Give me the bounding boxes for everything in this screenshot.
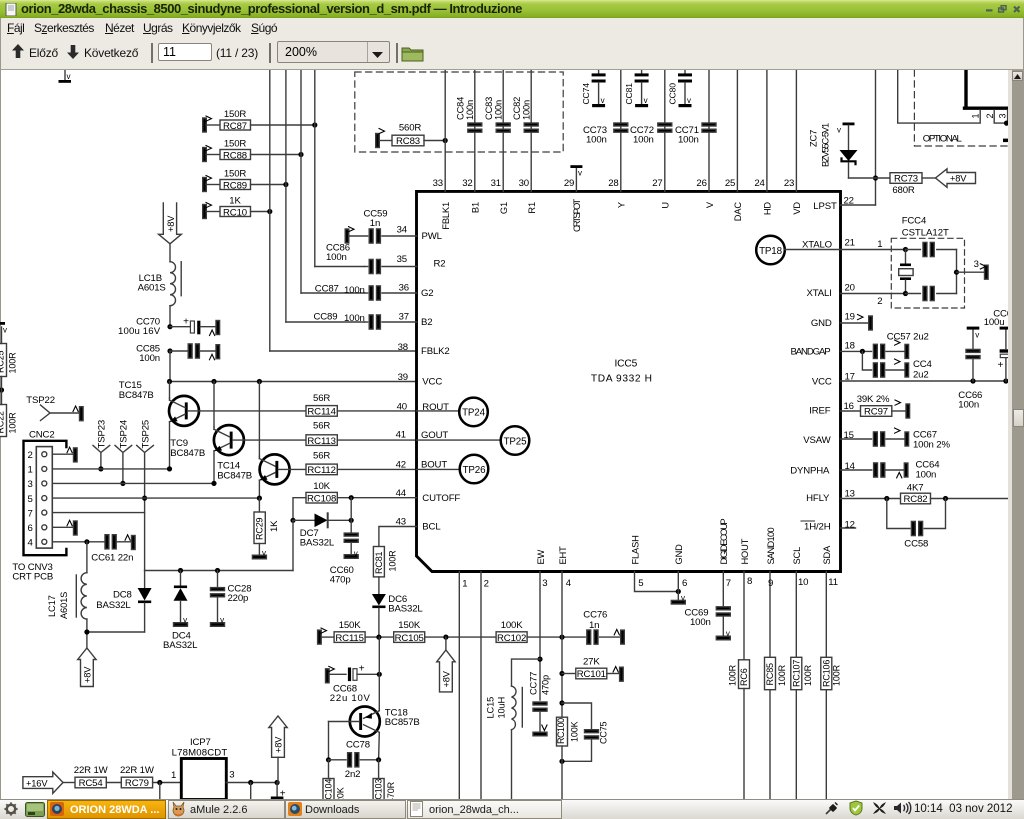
VCC rail wire pin39 [170, 381, 417, 383]
capacitor CC81 100n to ground [624, 70, 649, 107]
svg-text:BZV55C-5V1: BZV55C-5V1 [821, 123, 831, 167]
left edge partial resistor 100R (lower) [0, 377, 18, 437]
svg-text:CC77: CC77 [529, 672, 539, 695]
svg-text:GOUT: GOUT [421, 430, 448, 441]
svg-text:14: 14 [845, 461, 856, 472]
resistor RC114 56R [306, 393, 417, 418]
svg-text:R1: R1 [527, 202, 537, 214]
svg-text:GND: GND [811, 318, 832, 329]
svg-text:v: v [601, 96, 605, 105]
svg-text:CC87: CC87 [315, 284, 339, 295]
svg-text:VD: VD [792, 202, 802, 215]
CNC2 pin3 wire [52, 481, 216, 486]
svg-text:CC58: CC58 [904, 539, 928, 550]
svg-text:+16V: +16V [26, 778, 48, 788]
transistor TC18 BC857B (PNP) [329, 637, 420, 760]
svg-text:1: 1 [877, 239, 882, 250]
svg-text:v: v [726, 629, 730, 638]
+8V up arrow mid [437, 637, 455, 692]
transistor TC15 BC847B [119, 380, 306, 469]
svg-text:3: 3 [997, 114, 1007, 119]
svg-text:35: 35 [397, 254, 407, 265]
svg-text:33: 33 [433, 178, 443, 189]
svg-text:FBLK1: FBLK1 [441, 202, 451, 230]
test point TSP24 [115, 419, 132, 486]
svg-text:CC83: CC83 [484, 97, 494, 120]
svg-text:IREF: IREF [809, 406, 831, 417]
svg-text:2: 2 [484, 579, 489, 590]
svg-text:26: 26 [696, 178, 706, 189]
svg-text:CC81: CC81 [624, 83, 634, 105]
svg-text:150R: 150R [224, 169, 247, 180]
svg-text:BC847B: BC847B [119, 390, 154, 401]
svg-text:VSAW: VSAW [803, 435, 831, 446]
svg-text:RC115: RC115 [335, 633, 363, 644]
svg-text:100R: 100R [803, 664, 813, 686]
svg-text:28: 28 [608, 178, 618, 189]
svg-text:36: 36 [399, 283, 409, 294]
svg-text:6: 6 [28, 523, 33, 534]
svg-text:3: 3 [974, 259, 979, 270]
connector top-right thick box [898, 70, 1009, 142]
svg-text:v: v [183, 616, 187, 625]
resistor RC82 4K7 + capacitor CC58 pin13 HFLY [841, 483, 1009, 550]
svg-text:BC847B: BC847B [217, 470, 252, 481]
test point TSP25 [137, 420, 154, 571]
svg-text:CC89: CC89 [314, 312, 338, 323]
svg-text:100n: 100n [678, 135, 699, 146]
pin10 SCL wire + resistor RC107 100R [791, 572, 813, 800]
svg-text:4: 4 [28, 538, 34, 549]
svg-text:+8V: +8V [274, 736, 284, 753]
svg-text:v: v [262, 549, 266, 558]
capacitor CC64 100n pin14 [841, 460, 941, 481]
svg-text:XTALI: XTALI [806, 288, 831, 299]
svg-text:+8V: +8V [950, 174, 967, 184]
svg-text:BCL: BCL [422, 522, 441, 533]
svg-text:CC78: CC78 [346, 740, 370, 751]
svg-text:100u 16V: 100u 16V [118, 326, 161, 337]
svg-text:RC89: RC89 [223, 180, 247, 191]
capacitor CC65 100u electrolytic [984, 309, 1012, 382]
svg-text:BAS32L: BAS32L [388, 604, 423, 615]
pin3 EW wire + CC77 470p + inductor LC15 10uH [486, 572, 551, 800]
svg-text:FCC4: FCC4 [902, 216, 927, 227]
IC pin labels right [790, 201, 837, 533]
svg-text:FLASH: FLASH [630, 535, 640, 564]
svg-text:16: 16 [844, 401, 854, 412]
capacitor CC69 100n pin7 DIGIDECOUP [685, 572, 731, 640]
svg-text:DYNPHA: DYNPHA [790, 466, 830, 477]
svg-text:+: + [183, 317, 189, 328]
svg-text:LC15: LC15 [486, 697, 496, 719]
svg-text:25: 25 [725, 178, 735, 189]
svg-text:11: 11 [828, 577, 838, 588]
resistor RC73 680R [876, 173, 936, 196]
svg-text:v: v [67, 72, 71, 81]
svg-text:CC75: CC75 [599, 721, 609, 744]
svg-text:CRTSPOT: CRTSPOT [572, 199, 582, 232]
capacitor CC57 2u2 [841, 332, 929, 359]
resistor RC89 150R [203, 169, 289, 192]
transistor TC14 BC847B [217, 382, 306, 499]
+8V left arrow [936, 169, 976, 188]
svg-text:L78M08CDT: L78M08CDT [172, 748, 228, 759]
svg-text:+8V: +8V [82, 666, 92, 683]
svg-text:LC17: LC17 [47, 595, 57, 617]
resistor RC104 [323, 760, 346, 806]
capacitor CC82 100n on pin30 wire [512, 70, 538, 191]
svg-text:RC104: RC104 [324, 779, 334, 799]
svg-text:1n: 1n [589, 620, 599, 631]
svg-text:RC108: RC108 [307, 493, 336, 504]
IC pin numbers bottom [462, 576, 838, 590]
svg-text:3: 3 [542, 578, 547, 589]
svg-text:1n: 1n [370, 218, 380, 229]
dashed box around RC83 [355, 72, 563, 152]
IC pin labels top (vertical) [441, 199, 802, 232]
svg-text:BC857B: BC857B [385, 717, 420, 728]
svg-text:100R: 100R [777, 664, 787, 686]
capacitor CC4 2u2 [862, 351, 932, 380]
resistor RC97 39K 2% [841, 394, 910, 418]
test point TP25 [417, 426, 530, 455]
pin8 HOUT wire + resistor RC6 100R [728, 572, 750, 800]
resistor RC83 560R [376, 123, 448, 148]
svg-text:100R: 100R [728, 664, 738, 686]
svg-text:RC112: RC112 [307, 465, 335, 476]
svg-text:CNC2: CNC2 [29, 430, 55, 441]
svg-text:1K: 1K [269, 520, 280, 532]
capacitor CC28 220p to ground [211, 571, 252, 627]
resistor RC81 100R + diode DC6 pin43 BCL [372, 527, 424, 638]
svg-text:TP26: TP26 [463, 465, 487, 476]
svg-text:RC88: RC88 [223, 150, 247, 161]
pin24 wire [766, 70, 768, 191]
resistor RC108 10K + diode DC7 + capacitor CC60 pin44 CUTOFF [290, 481, 416, 586]
svg-text:1: 1 [28, 465, 33, 476]
svg-text:560R: 560R [399, 123, 422, 134]
svg-text:BC847B: BC847B [170, 448, 205, 459]
resistor RC10 1K [203, 196, 273, 219]
svg-text:RC73: RC73 [894, 174, 918, 185]
IC pin labels bottom (vertical) [536, 519, 832, 565]
svg-text:TSP25: TSP25 [141, 420, 152, 449]
svg-text:+8V: +8V [166, 215, 176, 232]
svg-text:v: v [354, 549, 358, 558]
svg-text:RC83: RC83 [396, 136, 420, 147]
capacitor CC84 100n on pin32 wire [456, 70, 482, 191]
svg-text:100n: 100n [139, 353, 160, 364]
pin33 wire [444, 70, 446, 191]
svg-text:SCL: SCL [792, 547, 802, 565]
toolbar [0, 38, 1024, 70]
svg-text:100n 2%: 100n 2% [913, 440, 950, 451]
IC pin numbers left [396, 225, 409, 528]
svg-text:v: v [578, 169, 582, 178]
IC pin numbers top [433, 178, 795, 189]
svg-text:v: v [681, 594, 685, 603]
zener ZC7 BZV55C-5V1 [809, 70, 879, 205]
svg-text:OPTIONAL: OPTIONAL [923, 134, 963, 145]
svg-text:21: 21 [845, 238, 855, 249]
resistor RC112 56R [306, 451, 417, 477]
svg-text:DC8: DC8 [113, 590, 132, 601]
svg-text:100n: 100n [465, 100, 475, 120]
svg-text:150R: 150R [224, 139, 247, 150]
svg-text:20K: 20K [336, 787, 346, 799]
svg-text:27K: 27K [583, 657, 600, 668]
svg-text:15: 15 [844, 430, 854, 441]
crystal FCC4 CSTLA12T [841, 216, 989, 309]
svg-text:1: 1 [971, 114, 981, 119]
resistor RC29 1K to ground [252, 498, 280, 559]
svg-text:39: 39 [398, 372, 408, 383]
svg-text:TSP24: TSP24 [119, 419, 130, 448]
svg-text:TP25: TP25 [504, 436, 528, 447]
svg-text:4: 4 [566, 578, 572, 589]
wire to CC89 [286, 321, 365, 323]
svg-text:v: v [687, 96, 691, 105]
svg-text:G1: G1 [499, 202, 509, 214]
svg-text:6: 6 [682, 578, 687, 589]
wire FBLK2 [270, 350, 417, 352]
inductor LC17 A601S [47, 542, 145, 632]
capacitor CC68 22u 10V [326, 664, 382, 705]
svg-text:RC10: RC10 [223, 207, 247, 218]
svg-text:BOUT: BOUT [421, 459, 447, 470]
svg-text:470p: 470p [541, 675, 551, 695]
svg-text:HFLY: HFLY [806, 493, 830, 504]
svg-text:BAS32L: BAS32L [163, 640, 198, 651]
svg-text:TSP23: TSP23 [97, 420, 108, 449]
svg-text:23: 23 [784, 178, 794, 189]
pin5 FLASH + pin6 GND to ground [635, 572, 686, 605]
IC pin labels left [421, 231, 460, 533]
svg-text:RC101: RC101 [577, 669, 606, 680]
pin22 LPST wire [841, 204, 876, 206]
pin23 wire [795, 70, 797, 191]
CNC2 pin2 wire to terminal [52, 447, 77, 462]
svg-text:100K: 100K [570, 721, 580, 742]
svg-text:56R: 56R [313, 393, 330, 404]
svg-text:2u2: 2u2 [913, 370, 929, 381]
capacitor CC59 1n pin34 PWL [345, 209, 416, 244]
svg-text:DIGIDECOUP: DIGIDECOUP [719, 519, 729, 565]
svg-text:+8V: +8V [442, 670, 452, 687]
svg-text:A601S: A601S [59, 592, 69, 619]
svg-text:RC6: RC6 [739, 668, 749, 686]
svg-text:v: v [3, 326, 7, 335]
svg-text:ROUT: ROUT [422, 402, 449, 413]
svg-text:2: 2 [985, 114, 995, 119]
svg-text:150R: 150R [224, 109, 247, 120]
CNC2 pin6 wire to terminal [52, 520, 77, 535]
svg-text:RC97: RC97 [864, 407, 888, 418]
pin17 VCC wire [841, 378, 1009, 383]
CNC2 pin1 wire [52, 466, 172, 471]
svg-text:CSTLA12T: CSTLA12T [902, 228, 949, 239]
capacitor CC85 100n [136, 343, 220, 364]
svg-text:v: v [220, 616, 224, 625]
capacitor CC89 100n pin37 B2 [314, 312, 417, 330]
150K row: RC115 RC105 RC102 CC76 [318, 610, 625, 645]
svg-text:27: 27 [652, 178, 662, 189]
svg-text:19: 19 [845, 312, 855, 323]
svg-text:7: 7 [28, 508, 33, 519]
svg-text:1K: 1K [229, 196, 241, 207]
capacitor CC83 100n on pin31 wire [484, 70, 510, 191]
pin9 SAND100 wire + resistor RC85 100R [765, 572, 788, 800]
svg-text:1: 1 [462, 579, 467, 590]
svg-text:22: 22 [844, 196, 854, 207]
svg-text:ZC7: ZC7 [809, 130, 819, 147]
transistor TC9 BC847B [170, 382, 306, 484]
pin2 VDRV+ wire [480, 572, 482, 800]
svg-text:RC87: RC87 [223, 121, 247, 132]
svg-text:30: 30 [519, 178, 529, 189]
resistor RC87 150R [203, 109, 318, 132]
svg-text:100K: 100K [501, 620, 524, 631]
svg-text:CC4: CC4 [913, 359, 933, 370]
test point TSP23 [93, 420, 110, 472]
svg-text:37: 37 [399, 312, 409, 323]
svg-text:EW: EW [536, 549, 546, 564]
svg-text:22R 1W: 22R 1W [120, 765, 155, 776]
capacitor CC87 100n pin36 G2 [315, 284, 417, 301]
svg-text:22R 1W: 22R 1W [74, 765, 109, 776]
svg-text:100n: 100n [326, 252, 347, 263]
svg-text:2: 2 [877, 296, 882, 307]
svg-text:SAND100: SAND100 [766, 528, 776, 565]
electrolytic below (partial) [271, 783, 286, 800]
svg-text:RC105: RC105 [395, 633, 424, 644]
svg-text:38: 38 [398, 342, 408, 353]
overline for 1H [801, 520, 815, 522]
connector CNC2 [12, 430, 66, 583]
svg-text:ICP7: ICP7 [190, 737, 211, 748]
CNC2 pin5 wire [52, 496, 262, 501]
capacitor CC74 100n to ground [581, 70, 606, 107]
svg-text:12: 12 [845, 520, 855, 531]
svg-text:5: 5 [638, 578, 643, 589]
svg-text:SDA: SDA [822, 545, 832, 565]
svg-text:BAS32L: BAS32L [300, 538, 335, 549]
svg-text:470p: 470p [330, 575, 351, 586]
svg-text:44: 44 [396, 488, 407, 499]
ground top-left [59, 70, 72, 83]
pin11 SDA wire + resistor RC106 100R [821, 572, 842, 800]
svg-text:RC79: RC79 [125, 778, 149, 789]
svg-text:100R: 100R [831, 664, 841, 686]
svg-text:RC114: RC114 [307, 407, 336, 418]
svg-text:G2: G2 [421, 288, 434, 299]
right gap and scrollbar [1008, 70, 1012, 799]
svg-text:CC74: CC74 [581, 83, 591, 105]
svg-text:10uH: 10uH [497, 697, 507, 719]
svg-text:32: 32 [462, 178, 472, 189]
pin25 wire [736, 70, 738, 191]
svg-text:150K: 150K [339, 620, 362, 631]
svg-text:100R: 100R [388, 550, 398, 572]
svg-text:RC102: RC102 [497, 633, 526, 644]
svg-text:V: V [705, 201, 715, 208]
svg-text:ICC5: ICC5 [614, 359, 637, 370]
capacitor CC66 100n [958, 327, 982, 411]
svg-text:24: 24 [754, 178, 765, 189]
svg-text:v: v [975, 331, 979, 340]
capacitor CC78 2n2 [326, 740, 381, 781]
svg-text:18: 18 [845, 341, 855, 352]
svg-text:TP18: TP18 [759, 246, 783, 257]
capacitor CC73 100n on pin28 wire [583, 70, 628, 191]
svg-text:100n: 100n [633, 135, 654, 146]
svg-text:1: 1 [171, 770, 176, 781]
svg-text:RC107: RC107 [791, 660, 801, 687]
svg-text:TP24: TP24 [462, 408, 486, 419]
capacitor CC71 100n on pin26 wire [675, 70, 716, 191]
capacitor CC72 100n on pin27 wire [630, 70, 672, 191]
dashed box OPTIONAL [914, 70, 1008, 146]
svg-text:GND: GND [674, 544, 684, 565]
pin1 VDRV- wire [458, 572, 460, 800]
+8V down arrow [159, 203, 182, 262]
taskbar [0, 799, 1024, 819]
svg-text:CUTOFF: CUTOFF [422, 493, 460, 504]
wire to CC86 [315, 266, 365, 268]
capacitor CC86 100n pin35 R2 [326, 243, 417, 274]
svg-text:CC61 22n: CC61 22n [91, 553, 133, 564]
svg-text:5: 5 [28, 494, 33, 505]
svg-text:100n: 100n [586, 135, 607, 146]
svg-text:FBLK2: FBLK2 [421, 346, 450, 357]
svg-text:10: 10 [798, 577, 808, 588]
resistor RC103 [373, 760, 396, 806]
svg-text:XTALO: XTALO [802, 239, 832, 250]
svg-text:+: + [998, 360, 1004, 371]
test point TP18 [756, 236, 840, 265]
svg-text:RC82: RC82 [904, 494, 928, 505]
svg-text:B1: B1 [471, 202, 481, 213]
svg-text:Y: Y [617, 202, 627, 208]
svg-text:A601S: A601S [138, 283, 166, 294]
svg-text:100n: 100n [522, 100, 532, 120]
svg-text:BANDGAP: BANDGAP [791, 347, 831, 358]
svg-text:42: 42 [396, 460, 406, 471]
inductor LC1B A601S [138, 262, 182, 327]
svg-text:RC106: RC106 [821, 660, 831, 687]
window title bar [0, 0, 1024, 18]
svg-text:v: v [837, 126, 841, 135]
svg-text:2: 2 [28, 450, 33, 461]
svg-text:1H/2H: 1H/2H [804, 522, 831, 533]
capacitor CC67 100n 2% [841, 428, 951, 451]
svg-text:HD: HD [763, 202, 773, 216]
+16V arrow + RC54 + RC79 [23, 765, 181, 799]
test point TP26 [417, 455, 489, 484]
svg-text:100n: 100n [494, 100, 504, 120]
svg-text:17: 17 [845, 372, 855, 383]
menu bar [0, 18, 1024, 38]
svg-text:DAC: DAC [733, 202, 743, 222]
svg-text:CC82: CC82 [512, 97, 522, 120]
+8V up arrow left (above ICP7 output) [269, 716, 287, 783]
svg-text:100n: 100n [958, 400, 979, 411]
svg-text:150K: 150K [398, 620, 421, 631]
svg-text:9: 9 [768, 578, 773, 589]
svg-text:RC25: RC25 [0, 350, 6, 373]
svg-text:3: 3 [28, 479, 33, 490]
